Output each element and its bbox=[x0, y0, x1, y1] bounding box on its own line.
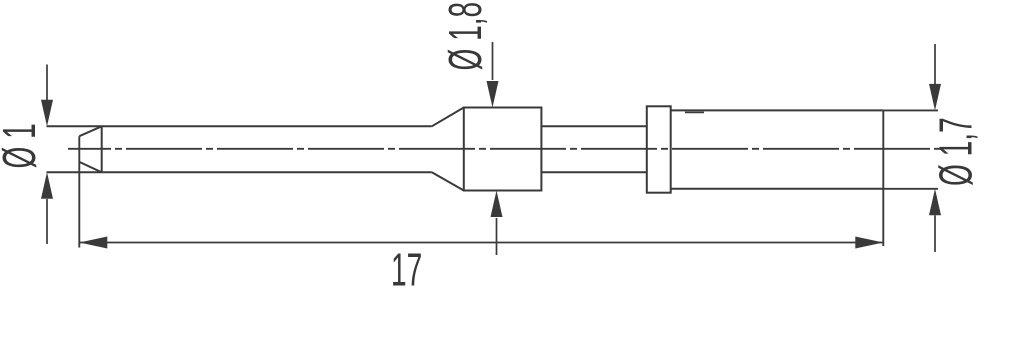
svg-text:Ø 1,7: Ø 1,7 bbox=[932, 117, 983, 186]
dim 17 right arrowhead bbox=[855, 237, 883, 249]
crimp barrel bell-mouth detail top bbox=[685, 111, 704, 113]
pin tip cone base line bbox=[101, 126, 103, 172]
collar body rectangle bbox=[464, 108, 542, 191]
centerline (dash-dot axis) bbox=[68, 148, 941, 150]
svg-text:17: 17 bbox=[391, 246, 422, 297]
taper top edge to collar bbox=[432, 108, 464, 127]
flange rectangle bbox=[647, 106, 671, 192]
crimp barrel bottom edge bbox=[671, 188, 884, 190]
pin bottom edge with left extension line bbox=[47, 171, 432, 173]
svg-text:Ø 1,8: Ø 1,8 bbox=[441, 2, 492, 71]
dim Ø1,7 lower arrowhead bbox=[929, 189, 941, 216]
pin tip cone bottom edge bbox=[79, 162, 101, 172]
taper bottom edge to collar bbox=[432, 172, 464, 190]
pin tip face and left extension line of dim 17 bbox=[78, 136, 80, 247]
dim Ø1 left upper arrow shaft bbox=[46, 65, 48, 101]
dim Ø1 left lower arrow shaft bbox=[46, 199, 48, 244]
dim Ø1,7 lower arrow shaft bbox=[934, 215, 936, 252]
dim Ø1,8 upper arrow shaft bbox=[492, 42, 494, 80]
dim 17 left arrowhead bbox=[79, 237, 107, 249]
right extension line bottom bbox=[883, 188, 938, 190]
middle shaft bottom edge bbox=[541, 171, 646, 173]
pin top edge with left extension line bbox=[47, 125, 432, 127]
crimp barrel top edge bbox=[671, 109, 884, 111]
dim Ø1,8 upper arrowhead bbox=[487, 81, 499, 108]
dim Ø1,7 upper arrow shaft bbox=[934, 44, 936, 84]
svg-text:Ø 1: Ø 1 bbox=[0, 123, 46, 168]
dim Ø1,8 lower arrowhead bbox=[491, 191, 503, 218]
dim Ø1 left lower arrowhead bbox=[41, 172, 53, 199]
dim Ø1,8 lower arrow shaft bbox=[496, 218, 498, 255]
middle shaft top edge bbox=[541, 125, 646, 127]
crimp barrel end line and right extension of dim 17 bbox=[882, 110, 884, 246]
dim Ø1 left upper arrowhead bbox=[41, 100, 53, 127]
pin tip cone top edge bbox=[79, 126, 101, 136]
right extension line top bbox=[883, 109, 938, 111]
dim Ø1,7 upper arrowhead bbox=[929, 84, 941, 111]
dim 17 dimension line bbox=[79, 242, 883, 244]
